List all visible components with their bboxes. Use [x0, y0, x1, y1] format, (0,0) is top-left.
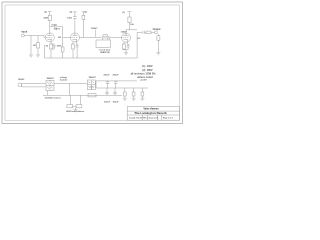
svg-text:1M: 1M [58, 37, 61, 39]
svg-text:12AX7: 12AX7 [54, 27, 61, 30]
svg-text:Issued: Feb 03: Issued: Feb 03 [129, 118, 142, 120]
svg-text:(1): (1) [85, 12, 88, 14]
svg-text:8EB2C1B: 8EB2C1B [100, 52, 110, 54]
svg-text:0.022: 0.022 [52, 24, 58, 26]
svg-text:1M: 1M [33, 45, 36, 47]
svg-text:Page 1 of 1: Page 1 of 1 [163, 118, 173, 120]
svg-text:lamrev.sch: lamrev.sch [149, 118, 160, 120]
svg-text:The Lamington Reverb: The Lamington Reverb [134, 111, 167, 115]
svg-text:(2): (2) [44, 12, 47, 14]
svg-text:(1): (1) [122, 12, 125, 14]
svg-text:+12.6V: +12.6V [140, 80, 147, 82]
svg-text:100R hum balance: 100R hum balance [66, 111, 85, 113]
svg-text:220uF: 220uF [113, 75, 120, 77]
svg-text:unless noted: unless noted [137, 76, 153, 79]
svg-text:(2) 185V: (2) 185V [142, 69, 153, 72]
svg-text:1N4007: 1N4007 [47, 77, 55, 80]
svg-text:Output: Output [153, 28, 161, 31]
svg-text:doubler: doubler [60, 78, 68, 81]
svg-text:12.6VDC heaters: 12.6VDC heaters [45, 97, 62, 100]
svg-text:(1) 100V: (1) 100V [142, 65, 153, 68]
svg-text:1N4007: 1N4007 [89, 76, 97, 79]
svg-text:12AU7: 12AU7 [91, 27, 98, 30]
svg-text:16VAC: 16VAC [18, 78, 25, 81]
svg-text:100uF: 100uF [113, 102, 120, 104]
svg-text:Rev 1: Rev 1 [143, 118, 148, 120]
svg-text:Input: Input [21, 31, 27, 34]
svg-text:(2): (2) [70, 12, 73, 14]
svg-text:220uF: 220uF [104, 75, 111, 77]
svg-text:12AU7: 12AU7 [121, 31, 128, 34]
svg-text:100uF: 100uF [104, 102, 111, 104]
